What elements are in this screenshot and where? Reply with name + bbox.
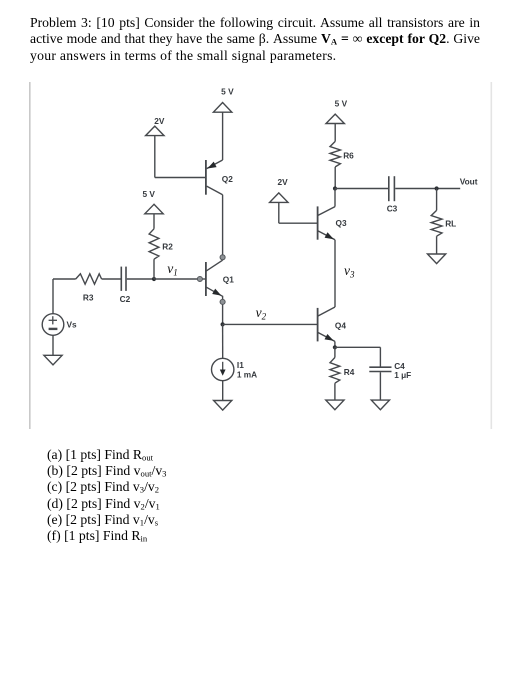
svg-text:v1: v1 bbox=[167, 261, 178, 278]
svg-text:5 V: 5 V bbox=[142, 189, 155, 199]
wire C2 to node v1 bbox=[127, 278, 154, 280]
current source I1 bbox=[212, 358, 234, 380]
svg-text:2V: 2V bbox=[278, 177, 289, 187]
wire R4 to ground bbox=[334, 383, 336, 400]
svg-text:I1: I1 bbox=[237, 360, 244, 370]
wire 2V down bbox=[154, 136, 156, 178]
wire Q2 collector to Q1 collector bbox=[222, 195, 224, 255]
voltage source Vs bbox=[42, 314, 64, 336]
node v2 junction dot bbox=[221, 322, 225, 326]
wire to RL bbox=[436, 189, 438, 211]
power arrow 5V (above Q2) bbox=[213, 103, 231, 113]
svg-text:1 μF: 1 μF bbox=[394, 370, 411, 380]
svg-text:Vs: Vs bbox=[67, 320, 78, 330]
svg-text:2V: 2V bbox=[154, 116, 165, 126]
svg-text:Q2: Q2 bbox=[222, 174, 233, 184]
transistor Q2 (PNP) bbox=[206, 160, 223, 195]
svg-text:5 V: 5 V bbox=[221, 86, 234, 96]
wire node to C3 bbox=[335, 188, 388, 190]
ground below C4 bbox=[371, 400, 389, 410]
svg-text:C3: C3 bbox=[387, 204, 398, 214]
wire v2 node down to I1 bbox=[222, 324, 224, 358]
svg-text:Q3: Q3 bbox=[336, 218, 347, 228]
svg-text:5 V: 5 V bbox=[335, 99, 348, 109]
power arrow 5V (above R2) bbox=[145, 204, 163, 214]
wire Vs bottom bbox=[52, 335, 54, 355]
transistor Q1 (NPN) bbox=[206, 260, 223, 296]
node RL junction dot bbox=[435, 186, 439, 190]
svg-text:R2: R2 bbox=[162, 241, 173, 251]
svg-text:Vout: Vout bbox=[460, 177, 478, 187]
transistor Q3 (NPN) bbox=[318, 206, 335, 239]
ground below RL bbox=[428, 254, 446, 264]
svg-text:1 mA: 1 mA bbox=[237, 370, 257, 380]
svg-text:v3: v3 bbox=[344, 263, 355, 280]
wire Q1 base short bbox=[203, 278, 206, 280]
ground below Vs bbox=[44, 355, 62, 365]
node Q4 emitter junction dot bbox=[333, 345, 337, 349]
wire to R3 bbox=[53, 278, 76, 280]
figure right border bbox=[490, 82, 492, 429]
wire 5V to R6 bbox=[334, 124, 336, 142]
ground below I1 bbox=[214, 401, 232, 411]
wire Vs top bbox=[52, 279, 54, 314]
wire C4 to ground bbox=[379, 372, 381, 400]
resistor R3 bbox=[76, 274, 102, 284]
wire C3 to Vout bbox=[395, 188, 460, 190]
svg-text:R3: R3 bbox=[83, 292, 94, 302]
node v1 junction dot bbox=[152, 277, 156, 281]
svg-text:v2: v2 bbox=[256, 305, 267, 322]
resistor R6 bbox=[330, 141, 340, 167]
power arrow 2V (left) bbox=[146, 126, 164, 136]
node at R6/C3/Q3 junction dot bbox=[333, 186, 337, 190]
capacitor C2 bbox=[120, 267, 122, 291]
wire node to Q3 collector bbox=[334, 189, 336, 207]
wire R6 to node bbox=[334, 167, 336, 189]
wire Q1 emitter down bbox=[222, 305, 224, 325]
resistor R2 bbox=[149, 229, 159, 259]
wire Q3 base bbox=[279, 222, 318, 224]
wire Q4 emitter to node bbox=[334, 341, 336, 347]
wire Q3 emitter to Q4 collector (node v3) bbox=[334, 240, 336, 307]
svg-text:RL: RL bbox=[445, 219, 456, 229]
wire node to C4 bbox=[335, 346, 381, 348]
svg-text:R4: R4 bbox=[344, 367, 355, 377]
pin circle Q1 emitter bbox=[220, 299, 225, 304]
wire RL to ground bbox=[436, 236, 438, 254]
svg-text:R6: R6 bbox=[343, 150, 354, 160]
wire Q2 base bbox=[155, 177, 206, 179]
capacitor C4 bbox=[369, 366, 391, 368]
svg-text:Q4: Q4 bbox=[335, 321, 346, 331]
wire R2 top bbox=[153, 214, 155, 229]
svg-text:Q1: Q1 bbox=[223, 274, 234, 284]
wire R3 to C2 bbox=[102, 278, 121, 280]
power arrow 5V (above R6) bbox=[326, 114, 344, 123]
transistor Q4 (NPN) bbox=[318, 307, 335, 341]
pin circle Q1 base bbox=[197, 276, 202, 281]
wire 2V down bbox=[278, 202, 280, 223]
wire v1 to Q1 base bbox=[154, 278, 197, 280]
svg-text:C2: C2 bbox=[120, 294, 131, 304]
wire 5V to Q2 emitter bbox=[222, 112, 224, 160]
resistor RL bbox=[431, 210, 442, 236]
wire R2 bottom bbox=[153, 259, 155, 279]
power arrow 2V (right) bbox=[270, 193, 288, 203]
capacitor C3 bbox=[388, 176, 390, 201]
wire down to C4 bbox=[379, 347, 381, 366]
wire node to R4 bbox=[334, 347, 336, 357]
wire I1 to ground bbox=[222, 381, 224, 401]
wire Q1 emitter stub bbox=[222, 296, 224, 300]
wire v2 to Q4 base bbox=[223, 323, 318, 325]
ground below R4 bbox=[326, 400, 344, 410]
figure left border bbox=[29, 82, 31, 429]
pin circle Q1 collector bbox=[220, 255, 225, 260]
resistor R4 bbox=[330, 358, 340, 384]
